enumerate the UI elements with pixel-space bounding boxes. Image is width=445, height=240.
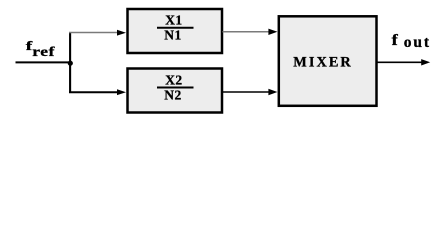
svg-text:MIXER: MIXER <box>293 55 353 71</box>
wire: f_ref input <box>16 61 71 63</box>
label f_out <box>392 31 431 51</box>
wire: U1 to mixer <box>223 31 270 33</box>
wire: U2 to mixer <box>223 91 269 93</box>
divider block U1 (X1/N1) <box>128 9 223 53</box>
arrowhead into U2 <box>117 89 126 95</box>
fraction bar of U1 <box>157 27 194 29</box>
arrowhead into mixer bottom <box>268 89 277 95</box>
svg-text:out: out <box>404 34 431 51</box>
svg-text:X2: X2 <box>165 72 182 87</box>
svg-text:f: f <box>392 31 398 49</box>
wire: vertical split <box>69 33 71 93</box>
wire: junction to U1 <box>69 32 118 34</box>
wire: junction to U2 <box>69 91 118 93</box>
mixer block U3 <box>279 16 377 106</box>
svg-text:N2: N2 <box>164 87 182 102</box>
svg-text:X1: X1 <box>165 13 182 28</box>
arrowhead into mixer top <box>268 29 277 35</box>
label f_ref <box>26 38 56 59</box>
divider block U2 (X2/N2) <box>128 69 223 113</box>
arrowhead output <box>421 59 430 65</box>
wire: mixer output <box>378 61 423 63</box>
svg-text:ref: ref <box>32 45 55 60</box>
fraction bar of U2 <box>157 87 194 89</box>
node: junction dot <box>68 61 73 66</box>
svg-text:N1: N1 <box>164 27 182 42</box>
arrowhead into U1 <box>117 30 126 36</box>
